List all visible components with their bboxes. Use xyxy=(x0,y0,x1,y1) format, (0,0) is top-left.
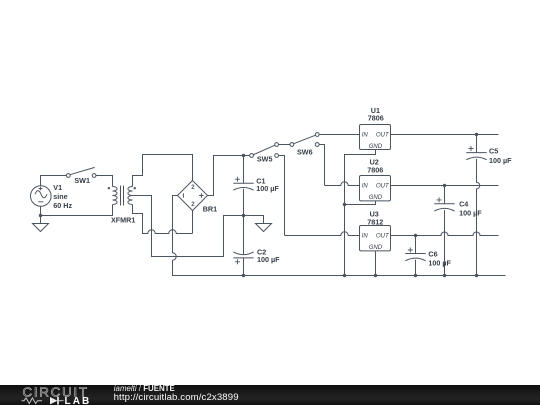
rail U1 OUT xyxy=(391,134,499,136)
wire C1 column top xyxy=(243,156,245,184)
capacitor C2 xyxy=(233,252,253,258)
svg-text:XFMR1: XFMR1 xyxy=(111,216,135,225)
svg-text:7806: 7806 xyxy=(367,165,383,174)
capacitor C6 xyxy=(405,254,425,261)
svg-text:7806: 7806 xyxy=(368,114,384,123)
regulator U1 box xyxy=(360,125,391,150)
svg-text:C5: C5 xyxy=(489,146,498,155)
node U3 GND bottom junction xyxy=(374,274,377,277)
svg-text:C4: C4 xyxy=(459,200,468,209)
wire U3 GND xyxy=(375,251,377,275)
svg-text:100 µF: 100 µF xyxy=(256,184,279,193)
capacitor C5 xyxy=(466,153,486,160)
footer url xyxy=(114,392,239,403)
svg-text:OUT: OUT xyxy=(376,234,390,240)
svg-text:SW1: SW1 xyxy=(74,176,90,185)
footer bar xyxy=(0,385,540,405)
switch SW1 xyxy=(70,167,95,174)
footer credit text xyxy=(114,384,175,393)
source V1 xyxy=(31,186,52,207)
node C5 bottom junction xyxy=(475,274,478,277)
wire BR1 plus to C1 rail xyxy=(208,156,250,196)
switch SW5 xyxy=(253,145,275,155)
node V1-ground junction xyxy=(39,214,42,217)
node U2 GND junction xyxy=(343,203,346,206)
svg-text:V1: V1 xyxy=(53,183,62,192)
regulator U3 box xyxy=(360,226,391,251)
wire center tap to ground xyxy=(133,196,264,257)
wire secondary top to BR1 top xyxy=(133,155,193,187)
svg-text:LAB: LAB xyxy=(65,396,92,405)
svg-text:60 Hz: 60 Hz xyxy=(53,201,72,210)
svg-text:BR1: BR1 xyxy=(203,204,217,213)
capacitor C4 xyxy=(434,204,454,211)
svg-text:100 µF: 100 µF xyxy=(428,258,451,267)
svg-text:OUT: OUT xyxy=(376,133,390,139)
wire C4 branch with hop xyxy=(444,186,446,276)
svg-text:100 µF: 100 µF xyxy=(489,156,512,165)
transformer XFMR1 xyxy=(113,187,118,205)
svg-text:GND: GND xyxy=(369,195,383,201)
svg-text:GND: GND xyxy=(369,144,383,150)
node C1 top junction xyxy=(242,154,245,157)
node C4 bottom junction xyxy=(443,274,446,277)
rail U2 OUT xyxy=(391,185,499,187)
node C2 bottom junction xyxy=(242,274,245,277)
circuitlab logo xyxy=(0,377,110,405)
wire V1 top to SW1 xyxy=(41,176,67,186)
capacitor C1 xyxy=(233,183,253,190)
node C1-C2 midpoint junction xyxy=(242,214,245,217)
svg-text:OUT: OUT xyxy=(376,184,390,190)
ground GND2 xyxy=(256,224,272,232)
wire primary bottom to V1 bottom xyxy=(41,205,113,216)
svg-text:IN: IN xyxy=(362,184,369,190)
svg-text:C6: C6 xyxy=(428,249,437,258)
wire C5 branch with hops xyxy=(477,135,480,276)
wire V1 bottom to ground xyxy=(40,206,42,223)
wire SW5 throw2 to U3 IN with hop xyxy=(279,156,360,236)
bridge rectifier BR1 xyxy=(178,181,208,211)
node GND-line bottom junction xyxy=(343,274,346,277)
wire SW1 to XFMR1 primary top xyxy=(96,176,113,187)
wire BR1 bottom stem xyxy=(192,211,194,234)
svg-text:IN: IN xyxy=(362,133,369,139)
svg-text:IN: IN xyxy=(362,234,369,240)
node C4 top junction xyxy=(443,184,446,187)
node C6 bottom junction xyxy=(414,274,417,277)
svg-text:sine: sine xyxy=(53,192,67,201)
node C6 top junction xyxy=(414,234,417,237)
wire SW6 throw2 to U2 IN with hop xyxy=(319,145,360,186)
svg-text:GND: GND xyxy=(369,245,383,251)
switch SW6 xyxy=(294,135,316,144)
wire secondary bottom to BR1 bottom with hops xyxy=(133,205,193,234)
svg-text:SW6: SW6 xyxy=(297,147,313,156)
wire C6 branch xyxy=(415,236,417,276)
wire U1 GND xyxy=(345,150,376,276)
wire C1 to C2 xyxy=(243,189,245,255)
rail U3 OUT xyxy=(391,232,499,235)
node C5 top junction xyxy=(475,133,478,136)
wire U2 GND xyxy=(345,201,376,205)
regulator U2 box xyxy=(360,176,391,201)
wire SW6 throw1 to U1 IN xyxy=(319,134,360,136)
svg-text:SW5: SW5 xyxy=(257,155,273,164)
wire BR1 minus down and bottom rail xyxy=(173,196,506,276)
svg-text:100 µF: 100 µF xyxy=(257,255,280,264)
svg-text:7812: 7812 xyxy=(367,218,383,227)
svg-text:100 µF: 100 µF xyxy=(459,209,482,218)
wire SW5 to SW6 xyxy=(279,144,291,146)
ground GND1 xyxy=(33,224,49,232)
wire C2 bottom xyxy=(243,258,245,276)
